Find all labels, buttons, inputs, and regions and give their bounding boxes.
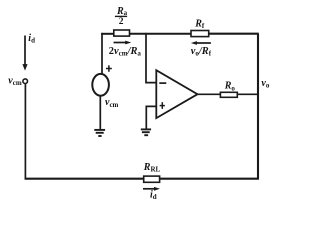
current arrow 2vcm/Ra (right) xyxy=(114,42,126,44)
source vcm circle xyxy=(92,74,109,96)
wire source bottom vertical xyxy=(99,96,101,130)
svg-text:vo: vo xyxy=(261,78,269,90)
svg-text:2vcm/Ra: 2vcm/Ra xyxy=(109,46,142,58)
wire top left segment xyxy=(101,33,114,35)
svg-text:vo/Rf: vo/Rf xyxy=(191,46,212,58)
svg-text:RRL: RRL xyxy=(143,162,161,174)
svg-text:id: id xyxy=(150,190,157,202)
svg-text:vcm: vcm xyxy=(105,97,119,109)
wire non-inverting input xyxy=(146,106,156,129)
svg-text:Rf: Rf xyxy=(194,18,205,30)
current arrow id (down) xyxy=(22,64,27,71)
wire right vertical xyxy=(257,34,259,180)
wire junction to inverting input xyxy=(146,33,156,83)
ground under source xyxy=(94,130,105,136)
wire top right segment xyxy=(209,33,259,35)
op-amp plus pin mark xyxy=(160,102,165,109)
wire top middle segment xyxy=(130,33,192,35)
svg-text:id: id xyxy=(28,33,35,45)
op-amp minus pin mark xyxy=(159,82,166,84)
wire bottom right segment xyxy=(160,178,259,180)
resistor RRL xyxy=(144,176,160,182)
svg-text:Ra: Ra xyxy=(116,6,128,17)
op-amp triangle xyxy=(156,70,197,118)
wire left vertical lower xyxy=(24,84,26,180)
fraction bar Ra/2 xyxy=(115,15,127,17)
resistor Rf xyxy=(191,31,209,37)
current arrow id bottom (right) xyxy=(143,188,154,190)
resistor Ra/2 xyxy=(114,30,130,36)
svg-text:Ro: Ro xyxy=(224,81,236,93)
svg-text:vcm: vcm xyxy=(8,75,22,87)
wire bottom left segment xyxy=(25,178,144,180)
wire op-amp output xyxy=(198,93,221,95)
ground under op-amp xyxy=(141,129,151,135)
resistor Ro xyxy=(220,92,237,97)
wire source top vertical xyxy=(101,33,103,74)
wire output right segment xyxy=(237,93,258,95)
node vcm terminal xyxy=(23,79,28,84)
current arrow vo/Rf (left) xyxy=(197,42,211,44)
label + of source xyxy=(106,65,112,72)
wire left vertical upper (id branch) xyxy=(24,36,26,65)
svg-text:2: 2 xyxy=(119,17,124,27)
